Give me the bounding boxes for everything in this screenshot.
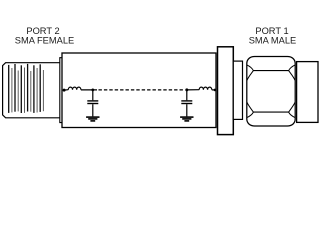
svg-text:SMA FEMALE: SMA FEMALE [15,36,74,46]
hex chamfer arcs top-left [247,65,254,81]
svg-text:PORT 1: PORT 1 [255,26,288,36]
wire C1 to ground [92,104,94,116]
left flange step [60,58,62,123]
hex chamfer arcs bottom-left [247,102,254,118]
node D (output junction dot) [214,89,217,92]
SMA female knurled nut outline [3,63,60,118]
wire node B down to capacitor C1 [92,90,94,100]
wire from node A to inductor L1 [64,89,68,91]
hex nut lower facet line [253,111,288,113]
capacitor C2 [181,101,192,104]
inductor L1 [68,87,81,90]
hex chamfer arcs bottom-right [289,102,296,118]
knurl lines dark [9,64,41,113]
svg-text:PORT 2: PORT 2 [26,26,59,36]
wire C2 to ground [186,104,188,116]
node B (junction dot above C1) [91,89,94,92]
wire from L1 to node B [81,89,97,91]
hex chamfer arcs top-right [289,65,296,81]
wire from node C to inductor L2 [187,89,199,91]
node A (input junction dot) [63,89,66,92]
capacitor C1 [87,101,98,104]
hex nut upper facet line [253,70,288,72]
svg-text:SMA MALE: SMA MALE [249,36,297,46]
mounting flange plate [218,47,234,135]
SMA male hex nut outline [247,57,295,127]
wire from L2 to output wall [212,89,216,91]
wire node C down to capacitor C2 [186,90,188,100]
threaded barrel [297,62,318,123]
ground GND1 [86,117,99,121]
inductor L2 [199,87,212,90]
washer ring [233,61,242,119]
node C (junction dot above C2) [185,88,188,91]
body outline [62,53,216,128]
ground GND2 [180,117,193,121]
knurl lines gray [12,68,44,113]
dashed wire between node B side and node C side [99,89,185,91]
